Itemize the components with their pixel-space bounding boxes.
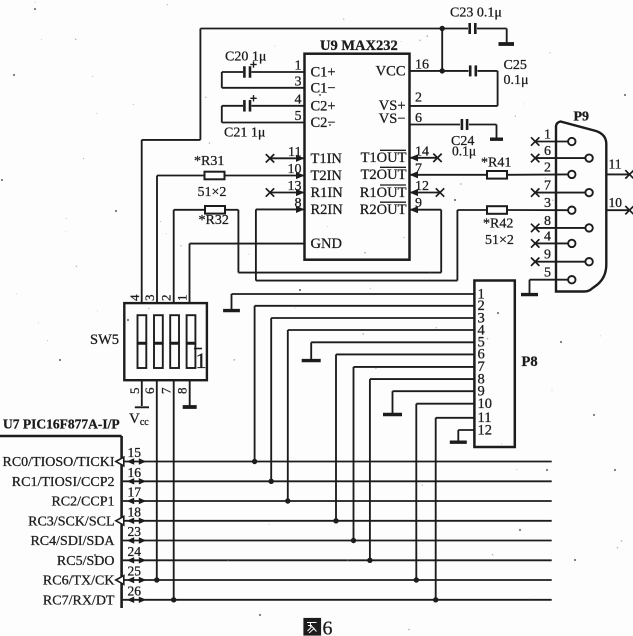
svg-text:P9: P9 xyxy=(574,110,590,125)
svg-text:2: 2 xyxy=(544,160,551,175)
svg-text:17: 17 xyxy=(128,485,142,500)
svg-text:C21 1μ: C21 1μ xyxy=(224,126,265,141)
svg-text:C1−: C1− xyxy=(311,80,336,96)
svg-text:3: 3 xyxy=(142,295,157,302)
svg-text:VCC: VCC xyxy=(376,64,406,80)
svg-text:C2−: C2− xyxy=(311,115,336,131)
svg-text:3: 3 xyxy=(544,196,551,211)
svg-text:RC2/CCP1: RC2/CCP1 xyxy=(51,495,114,510)
svg-text:C20 1μ: C20 1μ xyxy=(225,50,266,65)
svg-text:1: 1 xyxy=(196,348,207,373)
svg-text:1: 1 xyxy=(544,128,551,143)
svg-text:RC7/RX/DT: RC7/RX/DT xyxy=(43,593,115,608)
svg-text:*R31: *R31 xyxy=(194,154,224,169)
svg-text:5: 5 xyxy=(127,388,142,395)
svg-text:8: 8 xyxy=(544,214,551,229)
svg-text:7: 7 xyxy=(544,179,551,194)
svg-text:10: 10 xyxy=(609,195,623,210)
svg-text:*R41: *R41 xyxy=(481,156,511,171)
svg-text:R1IN: R1IN xyxy=(311,185,344,201)
svg-text:9: 9 xyxy=(544,248,551,263)
svg-text:U9 MAX232: U9 MAX232 xyxy=(320,38,398,54)
svg-text:RC5/SDO: RC5/SDO xyxy=(57,554,115,569)
svg-text:C1+: C1+ xyxy=(311,65,336,81)
svg-text:18: 18 xyxy=(128,505,142,520)
svg-text:6: 6 xyxy=(323,618,333,636)
svg-text:P8: P8 xyxy=(522,354,538,370)
svg-text:51×2: 51×2 xyxy=(485,233,514,248)
svg-text:U7 PIC16F877A-I/P: U7 PIC16F877A-I/P xyxy=(3,417,120,432)
svg-text:4: 4 xyxy=(127,294,142,301)
svg-text:2: 2 xyxy=(415,90,422,105)
svg-text:23: 23 xyxy=(128,524,142,539)
svg-text:RC6/TX/CK: RC6/TX/CK xyxy=(43,574,115,589)
svg-text:SW5: SW5 xyxy=(90,332,119,348)
svg-text:R2IN: R2IN xyxy=(311,202,344,218)
svg-text:26: 26 xyxy=(128,584,142,599)
svg-text:2: 2 xyxy=(159,295,174,302)
svg-text:0.1μ: 0.1μ xyxy=(504,73,529,88)
svg-text:25: 25 xyxy=(128,564,142,579)
svg-text:6: 6 xyxy=(544,144,551,159)
svg-text:1: 1 xyxy=(175,295,190,302)
svg-text:C2+: C2+ xyxy=(311,98,336,114)
svg-text:7: 7 xyxy=(159,387,174,394)
svg-text:T2IN: T2IN xyxy=(311,168,343,184)
svg-text:RC4/SDI/SDA: RC4/SDI/SDA xyxy=(30,534,115,549)
svg-text:*R42: *R42 xyxy=(483,217,513,232)
svg-text:R1OUT: R1OUT xyxy=(360,185,407,201)
svg-text:15: 15 xyxy=(128,445,142,460)
svg-text:RC3/SCK/SCL: RC3/SCK/SCL xyxy=(28,514,114,529)
svg-text:12: 12 xyxy=(478,422,493,438)
svg-text:GND: GND xyxy=(311,236,342,252)
svg-text:RC1/TIOSI/CCP2: RC1/TIOSI/CCP2 xyxy=(12,475,115,490)
svg-text:RC0/TIOSO/TICKI: RC0/TIOSO/TICKI xyxy=(3,455,115,470)
svg-text:0.1μ: 0.1μ xyxy=(452,144,476,159)
svg-text:T1IN: T1IN xyxy=(311,151,343,167)
svg-text:R2OUT: R2OUT xyxy=(360,202,407,218)
svg-text:51×2: 51×2 xyxy=(198,185,227,200)
svg-text:4: 4 xyxy=(544,229,551,244)
svg-text:T1OUT: T1OUT xyxy=(361,150,407,166)
svg-text:8: 8 xyxy=(175,388,190,395)
svg-text:C25: C25 xyxy=(504,58,527,73)
svg-text:24: 24 xyxy=(128,544,142,559)
svg-text:5: 5 xyxy=(544,266,551,281)
svg-text:*R32: *R32 xyxy=(199,213,229,228)
svg-text:VS−: VS− xyxy=(379,111,406,127)
svg-text:16: 16 xyxy=(128,465,142,480)
svg-text:T2OUT: T2OUT xyxy=(361,167,407,183)
svg-text:11: 11 xyxy=(609,157,622,172)
svg-text:C23 0.1μ: C23 0.1μ xyxy=(450,6,502,21)
svg-text:6: 6 xyxy=(142,387,157,394)
